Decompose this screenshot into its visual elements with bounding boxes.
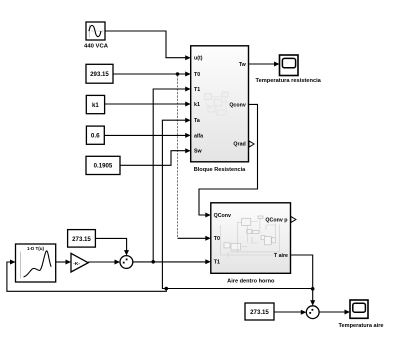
svg-text:T0: T0: [194, 72, 200, 78]
svg-text:Temperatura resistencia: Temperatura resistencia: [256, 78, 322, 84]
svg-text:k1: k1: [194, 102, 200, 108]
svg-text:Bloque Resistencia: Bloque Resistencia: [194, 167, 246, 173]
svg-text:273.15: 273.15: [72, 236, 91, 243]
svg-text:0.1905: 0.1905: [94, 163, 113, 170]
svg-text:Ta: Ta: [194, 118, 200, 124]
svg-text:T0: T0: [214, 236, 220, 242]
svg-text:Temperatura aire: Temperatura aire: [339, 323, 384, 329]
svg-text:T1: T1: [214, 260, 220, 266]
svg-text:alfa: alfa: [194, 133, 203, 139]
svg-text:Tw: Tw: [239, 62, 247, 68]
svg-text:T aire: T aire: [274, 253, 288, 259]
svg-text:Aire dentro horno: Aire dentro horno: [227, 278, 275, 284]
svg-text:Qrad: Qrad: [233, 141, 245, 147]
svg-text:QConv p: QConv p: [265, 218, 288, 224]
svg-text:Sw: Sw: [194, 149, 203, 155]
svg-text:1-D T(u): 1-D T(u): [27, 246, 44, 251]
svg-text:440 VCA: 440 VCA: [84, 44, 109, 50]
svg-text:273.15: 273.15: [250, 309, 269, 316]
svg-text:0.6: 0.6: [91, 133, 100, 140]
svg-text:-K-: -K-: [73, 261, 80, 267]
svg-text:Qconv: Qconv: [229, 102, 246, 108]
svg-text:k1: k1: [92, 102, 99, 109]
svg-text:293.15: 293.15: [90, 71, 109, 78]
svg-text:QConv: QConv: [214, 213, 231, 219]
svg-text:u(t): u(t): [194, 56, 203, 62]
svg-text:T1: T1: [194, 87, 200, 93]
